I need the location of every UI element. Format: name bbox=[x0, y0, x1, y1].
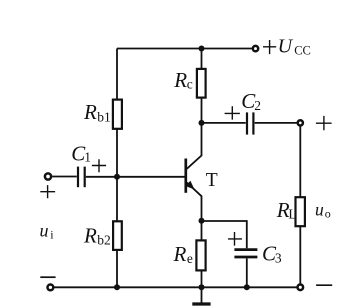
svg-text:2: 2 bbox=[254, 98, 261, 113]
svg-text:L: L bbox=[288, 207, 296, 222]
svg-text:R: R bbox=[173, 242, 187, 266]
svg-text:b1: b1 bbox=[97, 109, 111, 124]
svg-text:U: U bbox=[278, 36, 294, 58]
svg-text:u: u bbox=[40, 221, 49, 241]
svg-text:e: e bbox=[187, 251, 193, 266]
svg-text:R: R bbox=[173, 68, 187, 92]
svg-text:3: 3 bbox=[275, 251, 282, 266]
svg-text:T: T bbox=[206, 170, 218, 191]
svg-text:R: R bbox=[83, 100, 97, 124]
svg-text:R: R bbox=[83, 224, 97, 248]
svg-text:b2: b2 bbox=[97, 233, 111, 248]
svg-text:u: u bbox=[315, 200, 324, 220]
svg-text:CC: CC bbox=[294, 44, 311, 58]
svg-text:1: 1 bbox=[84, 149, 91, 164]
svg-text:c: c bbox=[187, 77, 193, 92]
svg-text:o: o bbox=[325, 207, 331, 221]
